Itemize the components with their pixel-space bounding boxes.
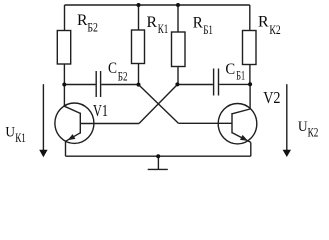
svg-text:К1: К1 — [15, 131, 26, 145]
svg-text:V1: V1 — [93, 101, 108, 120]
svg-text:U: U — [298, 119, 308, 135]
svg-text:C: C — [225, 61, 235, 78]
svg-text:Б2: Б2 — [118, 69, 128, 83]
svg-text:V2: V2 — [263, 88, 280, 107]
svg-text:U: U — [5, 124, 15, 140]
svg-text:К2: К2 — [269, 23, 280, 37]
svg-text:Б1: Б1 — [236, 69, 245, 83]
svg-text:R: R — [147, 14, 158, 31]
svg-text:Б2: Б2 — [87, 21, 98, 35]
svg-text:К2: К2 — [308, 125, 319, 139]
svg-text:R: R — [77, 12, 88, 29]
svg-text:К1: К1 — [158, 22, 169, 36]
svg-text:R: R — [258, 14, 269, 31]
svg-text:C: C — [108, 60, 117, 77]
svg-text:R: R — [193, 14, 203, 31]
svg-text:Б1: Б1 — [203, 23, 213, 37]
